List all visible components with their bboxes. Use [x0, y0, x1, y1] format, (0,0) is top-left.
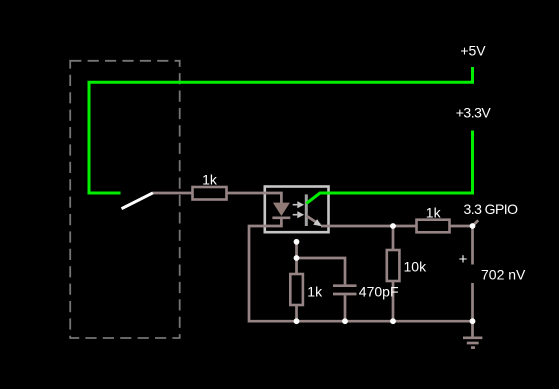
svg-text:702 nV: 702 nV: [481, 267, 526, 283]
svg-text:+: +: [459, 251, 468, 268]
svg-text:10k: 10k: [404, 259, 428, 275]
svg-text:1k: 1k: [426, 205, 442, 221]
svg-text:+5V: +5V: [460, 43, 486, 59]
svg-text:1k: 1k: [307, 284, 323, 300]
svg-text:470pF: 470pF: [359, 284, 399, 300]
svg-text:3.3 GPIO: 3.3 GPIO: [464, 201, 519, 217]
svg-text:1k: 1k: [202, 171, 218, 187]
svg-text:+3.3V: +3.3V: [456, 105, 492, 121]
